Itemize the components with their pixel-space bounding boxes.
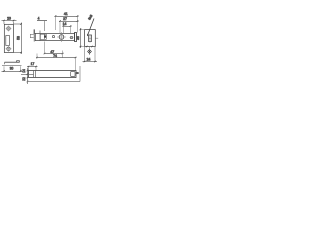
view4 dim 17 line [27, 66, 38, 68]
view1 faceplate outline [4, 24, 13, 52]
view3 hub centerline [89, 47, 91, 56]
view4 dim 17 extension lines [29, 67, 37, 71]
view1 faceplate front: dim 20 line [2, 20, 17, 22]
view3 width dim line [83, 61, 98, 63]
view4 tube inner wall line [21, 73, 34, 75]
view1 height dim line [20, 23, 22, 55]
view5 dim 30 extension lines [4, 66, 21, 72]
view2 rear collar [75, 33, 77, 42]
svg-text:14: 14 [22, 69, 26, 73]
view2 dim 41 extension lines [56, 17, 78, 33]
view2 rear screw hole [70, 36, 72, 38]
view2 dim 27 ticks [59, 20, 78, 22]
svg-text:41: 41 [64, 12, 68, 16]
view4 dim 74 right extension [75, 58, 77, 71]
svg-text:30: 30 [10, 67, 14, 71]
svg-text:17: 17 [31, 62, 35, 66]
view4 bolt inside tube [71, 72, 76, 77]
view2 dim 41 ticks [55, 15, 79, 17]
view4 dim 74 left extension [36, 54, 38, 59]
view2 axis centerline stub [77, 36, 80, 38]
view2 dark spring block [44, 35, 46, 37]
view4 left vertical dim ticks [27, 70, 29, 83]
view1 dim 20 ticks [3, 20, 14, 22]
view2 small pin hole [52, 36, 54, 38]
view3 hub diamond cross [88, 50, 90, 52]
svg-text:8: 8 [76, 72, 80, 74]
view1 bottom hole crosshair [6, 46, 12, 52]
view2 faceplate side bar upper dark [34, 29, 35, 34]
view2 dim 14 line [63, 25, 72, 27]
view1 top hole crosshair [6, 26, 12, 32]
view4 dim 74 ticks [36, 57, 76, 59]
view2 dim 27 line [59, 20, 79, 22]
view2 dim 14 extension lines [64, 27, 71, 33]
view3 horizontal centerline [96, 37, 99, 39]
view1 dim 20 extension lines [4, 22, 14, 25]
view4 dim 47 right extension [62, 51, 64, 59]
view2 faceplate side bar lower [33, 34, 36, 41]
view4 dim 47 left bent extension [44, 42, 46, 54]
svg-text:35: 35 [76, 36, 80, 40]
view5 strike plate top face [5, 61, 20, 63]
view3 leader diagonal [87, 19, 94, 37]
view5 strike plate lip [17, 61, 20, 63]
view2 spindle hole [59, 35, 64, 40]
view4 throw dim extension vertical [79, 66, 81, 82]
view3 width dim extension lines [85, 47, 96, 62]
view4 tube bar outline [29, 71, 77, 78]
svg-text:24: 24 [87, 57, 91, 61]
view4 dim 17 ticks [28, 66, 37, 68]
view4 dim 47 ticks [44, 53, 64, 55]
view2 internal divider [39, 31, 41, 42]
view2 spindle crosshair [57, 32, 66, 42]
view3 hub width ticks on box bottom [86, 46, 93, 48]
view1 top screw hole [7, 27, 10, 30]
view2 latch bolt tip [30, 34, 33, 37]
view3 height dim ticks [80, 29, 82, 48]
view3 height dim line [80, 28, 82, 48]
svg-text:22: 22 [22, 77, 26, 81]
view4 dim 47 line [45, 53, 64, 55]
view4 bottom reference line [27, 81, 80, 83]
view4 faceplate seam lines [34, 71, 36, 78]
svg-text:8x8: 8x8 [87, 14, 93, 21]
view2 dim 41 line [55, 15, 79, 17]
view2 dim 27 extension line [59, 22, 61, 33]
view2 inner rect mid divider [43, 34, 45, 39]
svg-text:27: 27 [63, 17, 67, 21]
view3 height dim extension lines [80, 30, 85, 47]
view5 strike lower edge line [2, 64, 22, 66]
view1 height dim extension lines [14, 24, 23, 53]
svg-text:4: 4 [38, 17, 40, 21]
view3 leader arrowhead [87, 33, 88, 35]
view3 spindle hole center cross [89, 34, 91, 42]
view5 dim 30 line [2, 70, 24, 72]
view3 width dim ticks [84, 61, 96, 63]
svg-text:14: 14 [63, 22, 67, 26]
svg-text:58: 58 [17, 36, 21, 40]
view3 side view outer box [85, 30, 96, 47]
view2 leader vertical to body [44, 21, 46, 31]
svg-text:20: 20 [7, 16, 11, 20]
view5 strike plate left end tick [4, 62, 6, 64]
view2 dim 14 ticks [63, 25, 72, 27]
view4 dim 74 line [36, 57, 77, 59]
view2 rear hole crosshair [70, 37, 74, 39]
view1 latch cutout [6, 36, 10, 46]
view2 inner bolt tail rect [40, 34, 46, 39]
view2 leader shelf line [37, 20, 47, 22]
view4 left vertical dim line [27, 68, 29, 84]
view3 square spindle hole [89, 35, 92, 42]
view1 bottom screw hole [7, 47, 10, 50]
view1 height dim ticks [20, 23, 22, 53]
view5 dim 30 ticks [3, 70, 21, 72]
svg-text:74: 74 [53, 54, 57, 58]
view4 left stub of bar top extension [20, 69, 23, 71]
view2 lock body outline [35, 33, 74, 40]
view3 hub square end (diamond) [88, 50, 92, 54]
